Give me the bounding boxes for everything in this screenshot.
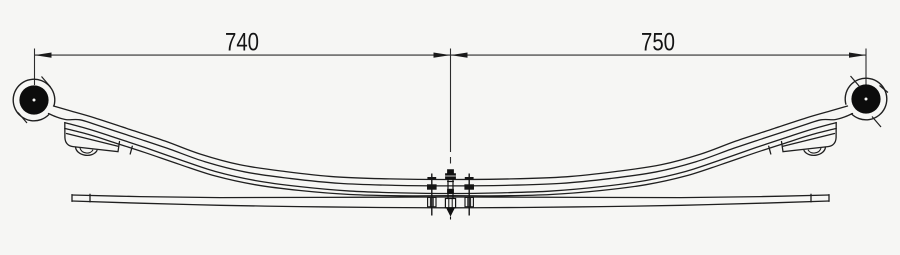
svg-text:740: 740 (225, 28, 259, 56)
svg-text:750: 750 (641, 28, 675, 56)
